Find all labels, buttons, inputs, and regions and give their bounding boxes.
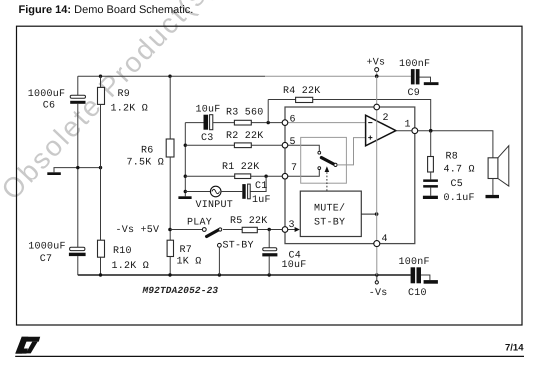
title Figure 14 (19, 4, 194, 16)
svg-text:R1 22K: R1 22K (222, 162, 260, 173)
svg-text:PLAY: PLAY (187, 218, 212, 229)
wire: C6 to C7 column (77, 104, 79, 248)
wire: pin 4 down to -Vs rail (376, 247, 378, 275)
svg-text:R7: R7 (180, 245, 193, 256)
svg-text:-Vs: -Vs (369, 288, 388, 299)
svg-text:R3 560: R3 560 (226, 107, 264, 118)
svg-text:+Vs: +Vs (367, 58, 386, 69)
wire: pin 1 to speaker corner (418, 131, 493, 158)
svg-text:R5 22K: R5 22K (230, 216, 268, 227)
ground for C5 (423, 196, 438, 199)
resistor R3 560 (213, 107, 282, 125)
capacitor C3 10uF (196, 105, 221, 144)
pin 3 (282, 220, 295, 232)
svg-text:1K Ω: 1K Ω (177, 256, 202, 267)
svg-text:M92TDA2052-23: M92TDA2052-23 (142, 285, 219, 296)
svg-text:C3: C3 (201, 133, 214, 144)
ST logo (15, 337, 40, 354)
wire: pin5 to switch contact (288, 145, 320, 151)
capacitor C7 1000uF electrolytic (28, 241, 85, 275)
svg-text:1uF: 1uF (252, 195, 271, 206)
junction dot top rail / +Vs drop (375, 74, 379, 78)
svg-text:2: 2 (383, 113, 389, 124)
wire: R4 riser (267, 100, 269, 123)
pin 3 arrow into mute block (288, 227, 300, 232)
pin 2 (374, 104, 389, 124)
wire: +Vs top rail (78, 75, 411, 77)
capacitor C9 100nF (399, 59, 430, 99)
svg-text:R6: R6 (141, 145, 154, 156)
switch PLAY contact (202, 228, 206, 232)
capacitor C1 1uF (242, 176, 270, 206)
wire: op-amp output to pin 1 (396, 130, 412, 132)
switch arm PLAY/ST-BY (207, 228, 222, 237)
junction dot mute output / supply line (375, 212, 379, 216)
ground for speaker (486, 195, 500, 198)
resistor R4 22K feedback (268, 86, 431, 131)
pin 5 (282, 137, 296, 148)
svg-text:10uF: 10uF (282, 260, 307, 271)
resistor R8 4.7 ohm (428, 131, 475, 180)
svg-text:R2 22K: R2 22K (226, 131, 264, 142)
svg-text:C7: C7 (40, 254, 53, 265)
svg-text:7.5K Ω: 7.5K Ω (127, 157, 165, 168)
svg-text:R10: R10 (113, 246, 132, 257)
svg-text:7/14: 7/14 (505, 342, 524, 353)
svg-text:C10: C10 (408, 288, 427, 299)
junction dot bottom rail / R7 (168, 273, 171, 276)
node +Vs terminal (367, 58, 386, 77)
footer rule (15, 355, 524, 357)
ground for C9 (420, 77, 439, 85)
junction dot output node (429, 129, 433, 133)
pin 6 (282, 114, 296, 125)
svg-text:MUTE/: MUTE/ (314, 202, 345, 214)
capacitor C6 1000uF electrolytic (28, 76, 86, 111)
resistor R1 22K (185, 162, 282, 178)
svg-text:1.2K Ω: 1.2K Ω (111, 104, 149, 115)
capacitor C5 0.1uF (423, 179, 475, 204)
svg-text:100nF: 100nF (399, 59, 430, 70)
wire: C3 row to pin 6 (185, 122, 203, 124)
junction dot gnd column / R1 row (184, 175, 187, 178)
svg-text:4: 4 (382, 234, 388, 245)
pin 7 (282, 163, 297, 179)
wire: supply line pin 2 down to pin 4 (376, 110, 378, 241)
junction dot top rail / R9 (99, 75, 102, 78)
svg-text:ST-BY: ST-BY (314, 218, 345, 229)
schematic border frame (17, 26, 523, 325)
ground input (VINPUT) (178, 196, 191, 199)
ground for C10 (421, 275, 438, 284)
svg-text:Figure 14: Demo Board Schemati: Figure 14: Demo Board Schematic. (19, 4, 194, 16)
svg-text:R9: R9 (118, 89, 131, 100)
svg-text:C1: C1 (255, 181, 268, 192)
svg-text:10uF: 10uF (196, 105, 221, 116)
capacitor C10 100nF (399, 257, 430, 299)
svg-text:R4 22K: R4 22K (283, 86, 321, 97)
svg-text:1.2K Ω: 1.2K Ω (112, 261, 150, 272)
junction dot ground wire / C column (76, 166, 79, 169)
junction dot ground wire / R9-R10 (99, 166, 102, 169)
signal source VINPUT (185, 186, 242, 211)
junction dot bottom rail / ST-BY (218, 273, 221, 276)
svg-text:ST-BY: ST-BY (223, 241, 254, 252)
resistor R9 1.2K (98, 76, 149, 240)
wire: signal ground column (184, 123, 186, 197)
svg-text:4.7 Ω: 4.7 Ω (444, 165, 475, 176)
switch contact pin5 side (318, 151, 321, 154)
speaker (488, 146, 509, 195)
svg-text:1000uF: 1000uF (28, 89, 66, 100)
svg-text:3: 3 (289, 220, 295, 231)
internal switch box (301, 137, 347, 183)
resistor R2 22K (185, 131, 282, 148)
svg-text:1000uF: 1000uF (28, 241, 66, 252)
svg-text:100nF: 100nF (399, 257, 430, 268)
svg-text:R8: R8 (446, 151, 459, 162)
switch ST-BY contact (218, 241, 254, 275)
junction dot bottom rail / R10 (99, 273, 102, 276)
wire: switch common to op-amp non-inverting input (337, 138, 365, 165)
svg-text:1: 1 (405, 119, 411, 130)
junction dot top rail / R6 (168, 75, 171, 78)
resistor R6 7.5K (127, 76, 175, 240)
resistor R10 1.2K (98, 240, 150, 275)
junction dot R1 row / C1 riser (264, 175, 267, 178)
svg-text:7: 7 (291, 163, 297, 174)
junction dot R5 row / C4 (268, 228, 271, 231)
wire: +5V to PLAY switch (170, 229, 202, 231)
resistor R5 22K (223, 216, 282, 233)
wire: pin7 to switch contact (288, 169, 320, 176)
junction dot +5V node (R6/R7/switch) (168, 228, 172, 232)
junction dot gnd column / VINPUT row (184, 190, 187, 193)
MUTE/ST-BY block (300, 191, 361, 236)
op-amp A1 (366, 115, 396, 146)
wire: bottom -Vs rail (78, 274, 411, 276)
svg-text:-Vs +5V: -Vs +5V (116, 225, 160, 236)
svg-text:VINPUT: VINPUT (196, 200, 234, 211)
junction dot bottom rail / C4 (268, 273, 271, 276)
watermark Obsolete Product(s) (0, 0, 221, 206)
junction dot R3 row / R4 riser (267, 121, 270, 124)
capacitor C4 10uF (262, 230, 306, 276)
ground left (C6/C7 node) (47, 168, 100, 175)
svg-text:0.1uF: 0.1uF (444, 193, 475, 204)
node -Vs terminal (369, 275, 388, 299)
pin 4 (374, 234, 388, 246)
wire: pin6 to op-amp inverting input (288, 122, 366, 124)
svg-text:5: 5 (290, 137, 296, 148)
junction dot bottom rail / pin4 line (375, 273, 378, 276)
wire: mute block output to pin 4 line (361, 213, 376, 215)
pin 1 (405, 119, 418, 133)
junction dot gnd column / R2 row (184, 144, 187, 147)
svg-text:6: 6 (290, 114, 296, 125)
resistor R7 1K (167, 240, 201, 275)
switch contact pin7 side (318, 167, 321, 170)
svg-text:C9: C9 (408, 88, 421, 99)
svg-text:C5: C5 (451, 179, 464, 190)
svg-text:C6: C6 (43, 100, 56, 111)
mute control dashed line with arrow (325, 166, 330, 191)
internal switch arm (321, 158, 337, 167)
wire: supply line +Vs rail to pin 2 (376, 76, 378, 104)
IC U1 TDA2052 outline (285, 107, 415, 244)
